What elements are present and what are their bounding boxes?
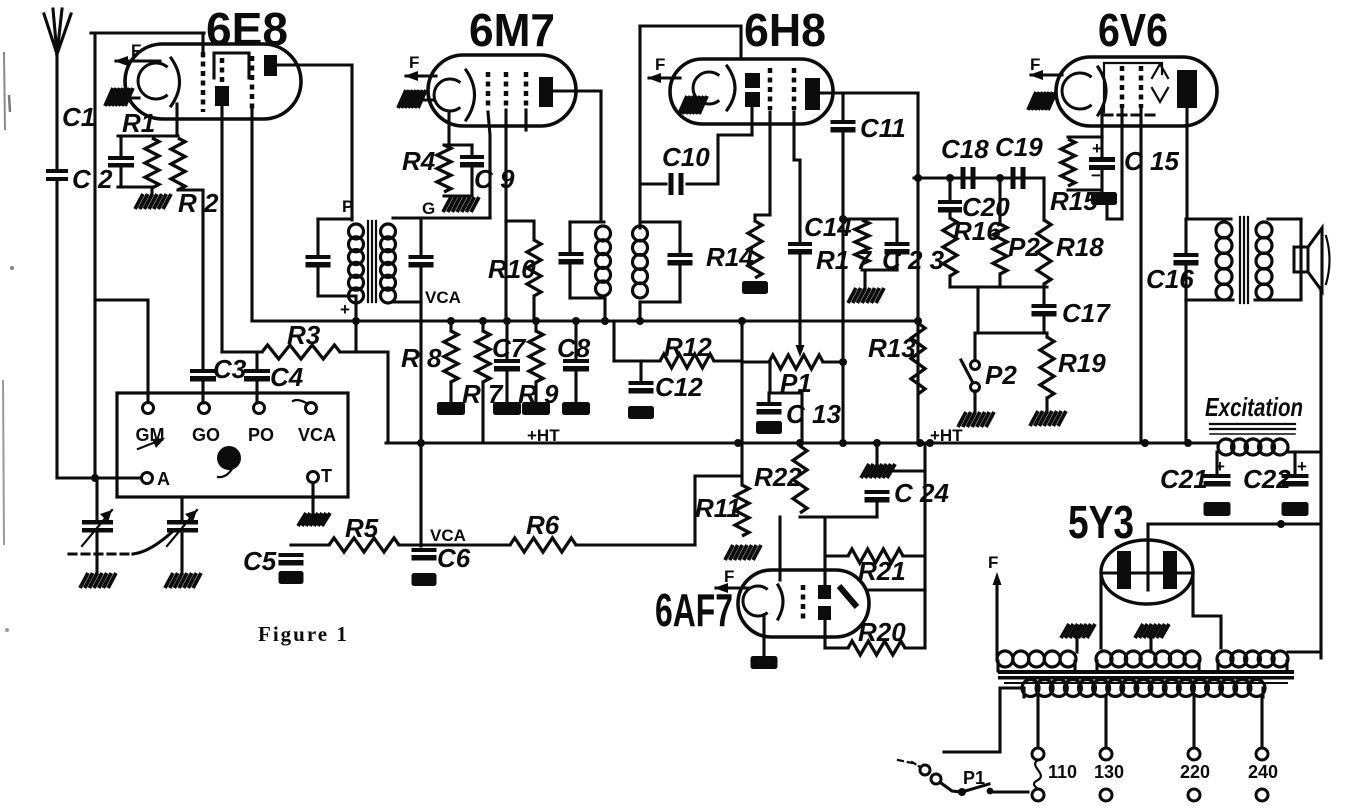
ground T — [298, 513, 330, 526]
svg-text:5Y3: 5Y3 — [1068, 496, 1134, 548]
resistor R8 — [444, 331, 458, 382]
IF2 sec right bottom — [678, 266, 681, 302]
wire winding hook 2 — [1095, 661, 1098, 671]
svg-text:C19: C19 — [995, 132, 1043, 162]
wire tap 1 — [1104, 697, 1107, 748]
resistor R18 — [1037, 220, 1051, 284]
tube 6V6 envelope — [1056, 57, 1217, 126]
filament winding w2 — [1096, 651, 1200, 667]
filament winding w1 — [997, 651, 1076, 667]
wire varcap1 top — [95, 478, 98, 520]
wire VCA R6 — [424, 543, 510, 546]
wire R22 bottom row — [800, 515, 877, 518]
wire 6E8 g3 down — [250, 109, 253, 321]
wire det node — [843, 217, 897, 220]
wire T gnd — [311, 483, 314, 513]
svg-text:220: 220 — [1180, 762, 1210, 782]
filament winding w3 — [1217, 651, 1288, 667]
capacitor C8 — [563, 359, 589, 372]
wire bus AVC — [252, 319, 920, 322]
wire R4 top node — [444, 143, 472, 146]
wire OT bottom — [1186, 298, 1233, 301]
svg-text:T: T — [321, 466, 332, 486]
terminal GM — [143, 403, 154, 414]
junction bus1 0 — [352, 317, 360, 325]
svg-text:C4: C4 — [270, 362, 304, 392]
capacitor C19 — [1011, 167, 1026, 189]
terminal A — [142, 473, 153, 484]
wire antenna down — [55, 50, 58, 169]
svg-text:PO: PO — [248, 425, 274, 445]
wire C17 node row — [978, 331, 1044, 334]
ground blob C21 — [1204, 502, 1231, 516]
wire C4 top — [255, 352, 258, 369]
wire C11 bottom — [841, 133, 844, 443]
wire ground w2 stub — [1149, 638, 1152, 652]
junction busHT 0 — [417, 439, 425, 447]
junction bus1 4 — [532, 317, 540, 325]
wire 6E8 screen down — [220, 106, 223, 352]
wire cath cap stub — [1100, 137, 1103, 157]
cathode 6AF7 — [743, 586, 768, 616]
svg-text:C18: C18 — [941, 134, 989, 164]
resistor R6 — [510, 538, 576, 552]
junction bus1 7 — [636, 317, 644, 325]
wire C12 stub — [639, 361, 642, 381]
wire C24 stub top — [875, 443, 878, 464]
IF1 sec right bottom — [419, 268, 422, 302]
svg-text:R10: R10 — [488, 254, 536, 284]
IF2 secondary coil — [633, 226, 648, 298]
wire P2 bottom — [998, 274, 1001, 287]
terminal T — [308, 472, 319, 483]
capacitor IF1 secondary — [409, 255, 434, 268]
wire R18 top — [1042, 178, 1045, 220]
capacitor C23 — [885, 242, 910, 255]
wire C24 bottom — [875, 503, 878, 517]
svg-text:P: P — [342, 197, 353, 216]
shadow vane 6AF7 — [839, 586, 857, 607]
excitation core — [1210, 424, 1295, 434]
wire 6M7 anode to IF2 — [553, 91, 601, 222]
wire scan streak 1 — [4, 52, 5, 130]
wire R20 right — [905, 646, 925, 649]
antenna prong — [57, 9, 62, 54]
wire 6E8 cathode stub — [126, 96, 139, 99]
wire varcap2 top — [180, 497, 183, 520]
wire 6V6 grid down — [1107, 108, 1122, 219]
IF2 primary tap — [603, 298, 606, 321]
junction bus1 1 — [447, 317, 455, 325]
grid arc 6AF7 — [778, 585, 783, 619]
wire C17 bottom — [1042, 317, 1045, 333]
capacitor C17 — [1032, 304, 1057, 317]
svg-text:R6: R6 — [526, 510, 560, 540]
wire grid line down — [201, 190, 204, 369]
screen frame 6E8 — [214, 53, 249, 78]
junction busHT 7 — [1141, 439, 1149, 447]
junction A line — [91, 474, 99, 482]
switch knob — [217, 446, 241, 470]
tube 6H8 envelope — [670, 59, 833, 124]
wire 6AF7 heater F — [716, 586, 748, 589]
wire R21 right — [903, 554, 925, 557]
capacitor C10 — [669, 173, 684, 195]
wire R10 top — [506, 221, 534, 240]
grid column 6V6 g1 — [1120, 66, 1125, 108]
wire C21 stub — [1215, 452, 1218, 474]
svg-text:C22: C22 — [1243, 464, 1291, 494]
excitation field coil — [1218, 439, 1288, 455]
terminal tap top 3 — [1256, 748, 1268, 760]
svg-text:6H8: 6H8 — [744, 4, 826, 56]
svg-text:6AF7: 6AF7 — [655, 584, 733, 636]
ground P2 switch — [958, 412, 994, 427]
ground blob C12 — [628, 406, 654, 419]
target plate 6AF7 a — [818, 585, 831, 599]
anode rect 6E8 triode — [215, 86, 229, 106]
wire P2 switch top — [973, 333, 976, 361]
wire P1 right — [823, 360, 843, 363]
grid column 6M7 g3 — [524, 72, 529, 110]
svg-text:C5: C5 — [243, 546, 277, 576]
IF1 cap left bottom — [316, 268, 319, 296]
diode plate 6H8 d2 — [745, 92, 760, 107]
terminal tap top 0 — [1032, 748, 1044, 760]
terminal tap bottom 2 — [1188, 789, 1200, 801]
wire 6M7 heater F — [406, 74, 436, 77]
wire C23 bottom — [895, 255, 898, 270]
capacitor IF2 secondary — [668, 253, 693, 266]
capacitor C20 — [938, 200, 962, 213]
wire tap 0 — [1036, 697, 1039, 748]
wire 6H8 grid left drop — [638, 26, 641, 228]
wire tap 2 — [1192, 697, 1195, 748]
wire C14 line — [794, 112, 800, 242]
junction P2 top — [996, 174, 1004, 182]
wire R1 gnd stub — [150, 188, 153, 194]
IF2 secondary bottom — [640, 300, 680, 303]
ground 6E8 cathode hatch — [105, 88, 133, 106]
wire winding hook 4 — [1216, 661, 1219, 671]
capacitor IF2 primary — [559, 252, 584, 265]
capacitor C6 — [412, 548, 437, 561]
arrowhead F 6AF7 — [714, 583, 728, 593]
anode rect 6V6 — [1177, 70, 1197, 108]
wire OT left bottom — [1184, 266, 1187, 300]
grid column 6H8 g2 — [792, 68, 797, 110]
mains plug — [912, 762, 941, 784]
grid arc 6V6 — [1098, 67, 1106, 115]
ground blob C6 — [412, 573, 437, 586]
wire R9 bottom — [534, 382, 537, 402]
wire R17 gnd stub — [863, 270, 866, 288]
tube 6AF7 envelope — [738, 570, 869, 637]
wire OT sec top — [1268, 217, 1301, 220]
wire P2 stub — [998, 178, 1001, 224]
svg-text:R21: R21 — [858, 556, 906, 586]
switch P2 lever — [961, 360, 973, 383]
wire grid bus left — [93, 33, 96, 478]
svg-text:−: − — [1091, 166, 1101, 185]
IF2 primary top — [570, 220, 604, 223]
capacitor C16 — [1174, 253, 1199, 266]
svg-text:F: F — [409, 53, 419, 72]
wire 5Y3 left leg — [1099, 573, 1102, 648]
variable capacitor tuning 2 — [167, 520, 198, 533]
wire to node A — [57, 476, 147, 479]
switch wiper arrow — [138, 441, 158, 449]
wire G to IF1 — [421, 216, 490, 219]
ground R19 — [1030, 411, 1066, 426]
wire C2 top — [119, 136, 122, 156]
anode rect 6M7 — [539, 77, 553, 107]
svg-text:130: 130 — [1094, 762, 1124, 782]
wire R14 top — [755, 112, 770, 221]
potentiometer P1 — [769, 355, 823, 369]
wire C13 stub — [767, 393, 770, 402]
wire diode stub — [750, 107, 753, 135]
wire 110 squiggle link — [1034, 760, 1041, 789]
arrowhead F 5Y3 — [993, 572, 1002, 585]
wire R15 top node — [1068, 135, 1102, 138]
cathode 6H8 — [693, 72, 719, 104]
svg-text:C17: C17 — [1062, 298, 1111, 328]
resistor R9 — [529, 331, 543, 382]
wire R6 riser — [695, 476, 740, 545]
svg-text:C 9: C 9 — [474, 164, 515, 194]
wire P1 left drop — [770, 362, 802, 443]
wire C11 drop — [841, 93, 844, 120]
junction bus1 5 — [572, 317, 580, 325]
switch wiper arrowhead — [152, 438, 165, 448]
wire 6AF7 grid riser — [778, 517, 781, 580]
wire C1 to A — [55, 181, 58, 478]
svg-text:F: F — [131, 41, 141, 60]
wire to P1 — [742, 360, 769, 363]
potentiometer P2 — [993, 224, 1007, 274]
wire C23 top — [895, 219, 898, 242]
svg-text:R 8: R 8 — [401, 343, 442, 373]
junction busHT 1 — [734, 439, 742, 447]
wire C5 R5 — [291, 543, 329, 546]
wire C14 bottom — [798, 255, 801, 345]
wire C4 bottom — [255, 382, 258, 403]
ground R17 — [848, 288, 884, 303]
capacitor C13 — [757, 402, 782, 415]
capacitor C22 — [1282, 474, 1309, 487]
wire plug dash — [898, 760, 912, 763]
svg-text:C 2: C 2 — [72, 164, 113, 194]
transformer core — [998, 670, 1294, 684]
wire 5Y3 F — [995, 578, 998, 655]
arrowhead varcap2 — [185, 510, 197, 522]
wire C7 bottom — [505, 372, 508, 402]
wire C7 top — [505, 321, 508, 359]
ground R4 C9 — [443, 197, 479, 212]
gang dashed link — [69, 552, 133, 555]
terminal tap bottom 1 — [1100, 789, 1112, 801]
wire 6H8 grid top — [640, 26, 741, 59]
switch P2 contact bottom — [971, 383, 980, 392]
junction bus1 6 — [601, 317, 609, 325]
wire GM riser — [95, 300, 148, 403]
capacitor C7 — [494, 359, 520, 372]
diode plate 6H8 d1 — [745, 73, 760, 88]
wire 6E8 grid riser — [201, 33, 204, 56]
junction P1 right — [839, 358, 847, 366]
ground R1 — [135, 194, 171, 209]
wire plug to switch — [941, 783, 961, 792]
terminal tap bottom 3 — [1256, 789, 1268, 801]
resistor R4 — [437, 145, 451, 192]
wire AF row — [914, 176, 1044, 179]
output transformer secondary — [1256, 222, 1272, 300]
gang curve — [133, 532, 172, 554]
svg-text:R1: R1 — [122, 108, 155, 138]
wire scan speck 4 — [10, 266, 14, 270]
svg-text:C12: C12 — [655, 372, 703, 402]
beam frame 6V6 — [1104, 63, 1162, 112]
wire VCA line — [419, 302, 422, 546]
wire AF node row — [950, 285, 1047, 288]
junction bus1 2 — [479, 317, 487, 325]
IF2 prim left bottom — [568, 265, 571, 298]
switch P1 pivot — [958, 788, 966, 796]
junction HT out — [1277, 520, 1285, 528]
IF1 secondary bottom — [393, 300, 421, 303]
ground blob 6AF7 — [751, 656, 778, 669]
svg-text:R14: R14 — [706, 242, 754, 272]
wire scan streak 3 — [9, 95, 10, 112]
junction busHT 5 — [916, 439, 924, 447]
wire 6V6 cathode — [1100, 109, 1103, 137]
grid arc 6H8 — [727, 66, 735, 110]
OT core — [1240, 217, 1248, 303]
wire 6M7 cathode stub — [420, 98, 434, 101]
wire R12 to R11 — [740, 321, 743, 485]
wire bus +HT — [386, 441, 1217, 444]
wire R3 right — [340, 352, 388, 443]
svg-text:GO: GO — [192, 425, 220, 445]
wire R17 bottom node — [862, 268, 897, 271]
svg-text:P1: P1 — [963, 768, 985, 788]
junction bus1 3 — [503, 317, 511, 325]
wire R2 to grid line — [178, 188, 203, 191]
wire C20 R16 — [948, 213, 951, 218]
switch P1 contact — [987, 788, 994, 795]
svg-text:A: A — [157, 469, 170, 489]
resistor R14 — [748, 221, 762, 278]
resistor R1 — [145, 138, 159, 188]
arrowhead F 6V6 — [1029, 70, 1043, 80]
wire R12 left riser — [612, 321, 615, 361]
svg-text:C10: C10 — [662, 142, 710, 172]
terminal tap bottom 0 — [1032, 789, 1044, 801]
ground w2 — [1135, 624, 1169, 638]
wire 6E8 heater F — [116, 59, 160, 62]
wire screen node — [222, 350, 262, 353]
terminal VCA — [306, 403, 317, 414]
capacitor C2 — [108, 156, 134, 168]
variable capacitor tuning 1 — [82, 520, 113, 533]
wire 6E8 anode to IF1 — [277, 65, 352, 220]
svg-text:110: 110 — [1048, 762, 1077, 782]
tube 6E8 envelope — [125, 44, 301, 119]
svg-text:VCA: VCA — [425, 288, 461, 307]
hatch C24 top — [861, 464, 895, 478]
wire HT output — [1148, 522, 1321, 525]
ground blob R9 — [522, 402, 550, 415]
svg-text:R 2: R 2 — [178, 188, 219, 218]
capacitor C5 — [279, 553, 304, 566]
ground 6V6 cathode hatch — [1028, 92, 1056, 110]
wire C3 bottom — [201, 382, 204, 403]
wire switch to tap — [990, 790, 1028, 793]
resistor R22 — [793, 446, 807, 513]
svg-text:R 9: R 9 — [518, 379, 559, 409]
wire scan streak 2 — [3, 380, 4, 545]
wire R10 bottom — [532, 296, 535, 321]
junction det node — [839, 215, 847, 223]
wire 5Y3 right leg — [1193, 573, 1221, 648]
wire 6M7 grid G — [488, 112, 490, 218]
switch knob tail — [218, 469, 232, 477]
junction det row — [914, 174, 922, 182]
ground blob C7 — [493, 402, 521, 415]
wire top grid — [91, 31, 204, 34]
wire C9 bottom — [470, 168, 473, 196]
resistor R12 — [660, 354, 714, 368]
arrowhead F 6E8 — [114, 56, 128, 66]
wire R21 left — [825, 554, 848, 557]
junction busHT 6 — [926, 439, 934, 447]
svg-text:240: 240 — [1248, 762, 1278, 782]
svg-text:C7: C7 — [492, 333, 527, 363]
beam arrows 6V6 — [1152, 64, 1168, 102]
wire 6M7 g3 stub — [524, 110, 527, 130]
wire OT left top — [1184, 219, 1187, 253]
plate 5Y3 left — [1117, 551, 1131, 589]
wire R7 bottom — [481, 382, 484, 443]
wire R12 left — [614, 359, 660, 362]
wire varcap1 bottom — [95, 533, 98, 573]
resistor R16 — [943, 218, 957, 276]
svg-text:R22: R22 — [754, 462, 802, 492]
wire R18 bottom — [1042, 284, 1045, 287]
wire R20 left — [825, 646, 848, 649]
wire 6AF7 cathode tail — [762, 615, 765, 656]
grid column 6M7 g1 — [486, 72, 491, 110]
junction busHT 4 — [873, 439, 881, 447]
capacitor C4 — [244, 369, 270, 382]
wire R15 bottom node — [1068, 188, 1100, 191]
grid column 6M7 g2 — [504, 72, 509, 110]
terminal PO — [254, 403, 265, 414]
svg-text:Excitation: Excitation — [1205, 392, 1303, 422]
ground blob C22 — [1282, 502, 1309, 516]
svg-text:R20: R20 — [858, 617, 906, 647]
ground blob R8 — [437, 402, 465, 415]
wire C10 left — [640, 182, 666, 185]
wire R4 bottom node — [444, 194, 472, 197]
ground blob R14 — [742, 281, 768, 294]
resistor R11 — [735, 485, 749, 536]
capacitor C11 — [831, 120, 856, 133]
wire node drop — [976, 287, 979, 333]
wire 6M7 cathode down — [447, 111, 450, 145]
ground blob C8 — [562, 402, 590, 415]
